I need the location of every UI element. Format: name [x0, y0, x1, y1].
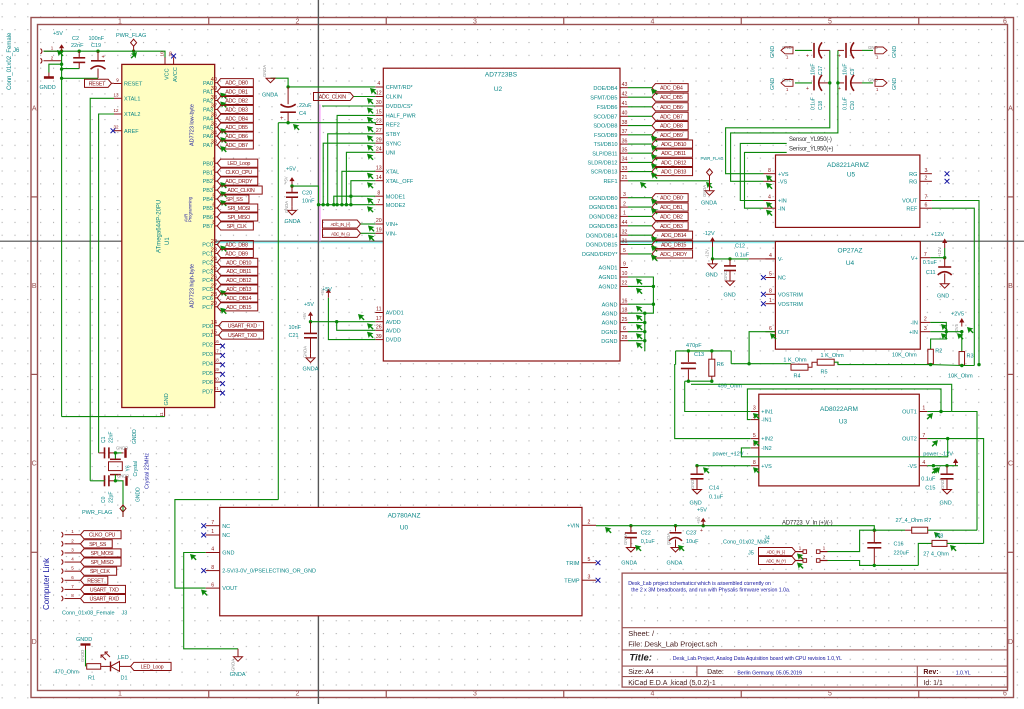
U2 pin 36 TSI/DB10: [594, 138, 628, 148]
svg-text:43: 43: [622, 82, 628, 88]
svg-text:XTAL_OFF: XTAL_OFF: [386, 179, 414, 185]
svg-text:26: 26: [376, 325, 382, 331]
svg-text:OUT1: OUT1: [902, 410, 917, 416]
svg-text:REF1: REF1: [603, 179, 617, 185]
svg-text:RESET: RESET: [89, 81, 106, 87]
svg-text:VIN+: VIN+: [386, 222, 398, 228]
svg-text:PD4: PD4: [202, 361, 213, 367]
svg-text:DVDD: DVDD: [386, 338, 402, 344]
svg-text:38: 38: [622, 120, 628, 126]
svg-text:ADC_DB8: ADC_DB8: [660, 124, 683, 130]
svg-text:25: 25: [211, 266, 217, 272]
U2 pin 17 AVDD: [375, 316, 400, 326]
U0 pin 1 NC: [201, 529, 230, 539]
svg-text:5: 5: [769, 272, 772, 278]
svg-text:+: +: [280, 116, 284, 122]
svg-text:8: 8: [377, 190, 380, 196]
svg-text:34: 34: [622, 157, 628, 163]
svg-text:27 4_Ohm: 27 4_Ohm: [923, 552, 949, 558]
svg-text:28: 28: [622, 335, 628, 341]
svg-text:ADC_DB10: ADC_DB10: [226, 260, 251, 266]
svg-text:GND: GND: [868, 78, 878, 83]
svg-text:+5V: +5V: [320, 288, 325, 296]
svg-text:1.0.YL: 1.0.YL: [956, 671, 971, 677]
svg-text:Sensor_YL950(+): Sensor_YL950(+): [789, 147, 833, 153]
svg-text:ADC_IN_(+): ADC_IN_(+): [766, 559, 786, 564]
svg-text:6: 6: [769, 326, 772, 332]
capacitor C2 22nF: [71, 36, 85, 69]
U0 pin 4 GND: [206, 547, 235, 557]
wire J4 pin1 to C16 top node: [828, 530, 875, 551]
global label ADC_DB15 at U2: [628, 240, 693, 251]
svg-text:ADC_IN_(+): ADC_IN_(+): [331, 222, 351, 227]
svg-text:20: 20: [376, 218, 382, 224]
svg-text:SCO/DB7: SCO/DB7: [593, 114, 617, 120]
wire XTAL to bus: [342, 171, 375, 204]
svg-text:USART_RXD: USART_RXD: [228, 324, 258, 330]
svg-text:+12V: +12V: [931, 232, 944, 238]
svg-text:Conn_01x02_Female: Conn_01x02_Female: [7, 32, 13, 90]
global label ADC_DB9 at U2: [628, 131, 688, 142]
erc markers at U2 config pins: [367, 117, 374, 213]
svg-text:J3: J3: [120, 611, 127, 617]
svg-text:VCC: VCC: [165, 68, 171, 80]
svg-text:Sensor_YL950(-): Sensor_YL950(-): [789, 137, 832, 143]
svg-text:23: 23: [211, 248, 217, 254]
svg-text:0.1uF: 0.1uF: [811, 97, 817, 110]
svg-text:19: 19: [214, 367, 220, 372]
svg-text:C9: C9: [850, 68, 856, 75]
U1 pin 7 / label SPI_MISO: [212, 211, 257, 221]
wire HALF_PWR to bus: [337, 115, 375, 204]
wire U1 GND to GNDD rail: [62, 416, 165, 418]
erc markers at U5 left pins: [766, 175, 773, 216]
capacitor C0 22pF: [90, 475, 115, 503]
svg-text:Computer Link: Computer Link: [42, 557, 51, 610]
svg-text:GNDA: GNDA: [231, 659, 236, 671]
U1 pin 3 / label ADC_DRDY: [212, 175, 257, 188]
svg-text:+: +: [700, 528, 703, 534]
svg-text:NC: NC: [222, 524, 230, 530]
wire XTAL_OFF to bus: [351, 181, 375, 205]
U1 pin 34 / label ADC_DB6: [211, 130, 254, 143]
U5 pin 4 +IN: [764, 195, 787, 205]
svg-text:TEMP: TEMP: [564, 578, 580, 584]
U1 pin 17 no-connect: [214, 348, 225, 358]
svg-text:OUT: OUT: [778, 330, 790, 336]
svg-text:GND: GND: [706, 273, 718, 279]
capacitor C19 100nF: [89, 36, 106, 78]
capacitor C16 220uF: [867, 530, 909, 565]
U2 pin 18 AGND: [602, 307, 628, 317]
U2 pin 41 FSI/DB6: [597, 101, 628, 111]
U1 pin 9 RESET: [114, 78, 143, 88]
svg-text:AD8022ARM: AD8022ARM: [820, 406, 858, 413]
svg-text:1: 1: [212, 158, 215, 164]
capacitor C20 10nF: [286, 184, 315, 206]
svg-text:7: 7: [924, 252, 927, 258]
capacitor C13 470pF: [681, 343, 704, 381]
svg-text:3: 3: [588, 574, 591, 580]
svg-text:VIN-: VIN-: [386, 231, 397, 237]
svg-text:U3: U3: [839, 419, 848, 426]
power +5V at +VIN rail: [696, 508, 707, 526]
U1 pin 6 / label SPI_MOSI: [212, 202, 257, 212]
U1 pin 36 / label ADC_DB4: [211, 113, 254, 123]
svg-text:STBY: STBY: [386, 132, 401, 138]
svg-text:ADC_DB9: ADC_DB9: [660, 133, 683, 139]
svg-text:AVDD: AVDD: [386, 320, 401, 326]
U3 pin 4 -VS: [908, 460, 928, 470]
svg-text:R8: R8: [936, 534, 943, 540]
global label ADC_DB4 at U2: [628, 84, 688, 95]
U4 pin 1 VOSTRIM: [761, 298, 803, 308]
U5 pin 2 RG: [909, 176, 932, 186]
svg-text:GNDD: GNDD: [132, 429, 138, 444]
svg-text:GNDA: GNDA: [262, 93, 278, 99]
svg-text:+IN: +IN: [778, 199, 787, 205]
svg-text:GND: GND: [868, 45, 878, 50]
U5 pin 1 -IN: [764, 202, 786, 212]
svg-text:ADC_DB0: ADC_DB0: [660, 196, 683, 202]
svg-text:ADC_DB3: ADC_DB3: [225, 107, 248, 113]
svg-text:CLKO_CPU: CLKO_CPU: [89, 533, 116, 539]
svg-text:19: 19: [376, 228, 382, 234]
svg-text:5: 5: [623, 248, 626, 254]
svg-text:4: 4: [768, 195, 771, 201]
svg-text:-VS: -VS: [778, 179, 788, 185]
svg-text:CFMT/RD*: CFMT/RD*: [386, 85, 414, 91]
svg-text:+5V: +5V: [284, 176, 289, 184]
svg-text:C15: C15: [925, 486, 935, 492]
svg-text:AGND1: AGND1: [599, 266, 618, 272]
svg-text:ADC_DB12: ADC_DB12: [226, 278, 251, 284]
svg-text:Crystal 22MHz: Crystal 22MHz: [145, 453, 151, 489]
svg-text:11: 11: [376, 307, 381, 313]
svg-text:HALF_PWR: HALF_PWR: [386, 114, 416, 120]
svg-text:22: 22: [622, 281, 628, 287]
svg-text:FSO/DB9: FSO/DB9: [594, 133, 618, 139]
svg-text:DGND/DB3: DGND/DB3: [589, 224, 617, 230]
svg-text:14: 14: [376, 175, 382, 181]
svg-text:0.1uF: 0.1uF: [921, 477, 936, 483]
svg-text:RESET: RESET: [87, 578, 104, 584]
svg-text:PWR_FLAG: PWR_FLAG: [116, 33, 146, 39]
global label ADC_DB10 at U2: [628, 140, 693, 151]
ground GNDD at C0: [117, 474, 142, 503]
U2 pin 20 VIN+: [375, 218, 398, 228]
capacitor C4 22uF: [280, 87, 312, 123]
svg-text:7: 7: [377, 199, 380, 205]
ground GNDA below U0: [230, 649, 246, 678]
svg-text:+12V: +12V: [937, 247, 942, 257]
svg-text:7: 7: [922, 433, 925, 439]
svg-text:DGND/DB15: DGND/DB15: [586, 243, 617, 249]
svg-text:0.1uF: 0.1uF: [641, 539, 656, 545]
wire R4R5 node to U3 +IN2: [675, 365, 751, 439]
U5 pin 3 RG: [909, 168, 932, 178]
svg-text:A: A: [32, 106, 37, 113]
resistor R6 499_Ohm: [709, 351, 742, 390]
svg-text:3: 3: [212, 175, 215, 181]
svg-text:5: 5: [753, 433, 756, 439]
svg-text:NC: NC: [778, 276, 786, 282]
svg-text:SPI_SS: SPI_SS: [226, 197, 244, 203]
svg-text:28: 28: [211, 292, 217, 298]
net label power_+12V at U3 +VS: [695, 452, 750, 468]
svg-text:5: 5: [212, 193, 215, 199]
svg-text:-12V: -12V: [705, 249, 710, 258]
U1 pin 30 AVCC no-connect: [168, 51, 179, 82]
svg-text:35: 35: [622, 147, 628, 153]
opamp U3 AD8022ARM body: [759, 394, 920, 486]
power +5V: [53, 31, 64, 51]
svg-text:Id: 1/1: Id: 1/1: [923, 680, 943, 687]
ground GND below C11: [944, 283, 946, 284]
ground GNDA at REF1: [701, 181, 717, 207]
global label ADC_DB8 at U2: [628, 122, 688, 130]
svg-text:AD7723BS: AD7723BS: [485, 72, 518, 79]
svg-text:AVDD1: AVDD1: [386, 311, 404, 317]
svg-text:10: 10: [160, 51, 165, 57]
wire GNDD to R1: [85, 650, 87, 667]
U2 pin 27 STBY: [375, 128, 400, 138]
svg-text:VOSTRIM: VOSTRIM: [778, 292, 803, 298]
J3 pin 5 / label SPI_CLK: [62, 566, 117, 576]
U1 pin 28 / label ADC_DB14: [211, 292, 258, 302]
svg-text:+5V: +5V: [286, 167, 296, 173]
svg-text:+5V: +5V: [697, 508, 707, 514]
svg-text:8: 8: [753, 460, 756, 466]
svg-text:C19: C19: [91, 43, 101, 49]
svg-text:DGND/DB14: DGND/DB14: [586, 233, 617, 239]
erc markers at U3 pins: [753, 413, 938, 474]
svg-text:1: 1: [623, 211, 626, 217]
svg-text:USART_RXD: USART_RXD: [89, 597, 119, 603]
svg-text:PD3: PD3: [202, 352, 213, 358]
J3 pin 7 / label USART_TXD: [62, 584, 126, 594]
global label ADC_DB5 at U2: [628, 93, 688, 101]
svg-text:C14: C14: [709, 486, 719, 492]
U1 pin 29 / label ADC_DB15: [211, 301, 258, 314]
global label LED_Loop: [131, 662, 172, 670]
svg-text:-IN1: -IN1: [761, 418, 771, 424]
svg-text:File: Desk_Lab Project.sch: File: Desk_Lab Project.sch: [628, 640, 717, 649]
svg-text:ADC_DB9: ADC_DB9: [225, 251, 248, 257]
svg-text:A: A: [1008, 106, 1013, 113]
U4 pin 4 V-: [765, 253, 783, 263]
svg-text:LED: LED: [118, 655, 129, 661]
wire U3 OUT1 loop to -IN1: [747, 389, 951, 420]
svg-text:ADC_DB15: ADC_DB15: [661, 243, 686, 249]
svg-text:GND: GND: [222, 551, 234, 557]
svg-text:0.1uF: 0.1uF: [843, 97, 849, 110]
U2 pin 3 DGND/DB0: [589, 192, 628, 202]
svg-text:Size: A4: Size: A4: [628, 669, 654, 676]
svg-text:5: 5: [828, 19, 832, 26]
svg-text:DGND/DRDY*: DGND/DRDY*: [582, 252, 618, 258]
svg-text:Y6: Y6: [126, 465, 132, 471]
svg-text:+IN: +IN: [909, 330, 918, 336]
svg-text:ADC_DB11: ADC_DB11: [226, 269, 251, 275]
svg-text:J4: J4: [764, 536, 770, 542]
svg-text:220uF: 220uF: [894, 551, 910, 557]
svg-text:26: 26: [211, 274, 217, 280]
svg-text:AGND: AGND: [602, 311, 618, 317]
svg-text:AGND2: AGND2: [599, 285, 618, 291]
ground GNDA below C23: [667, 545, 685, 567]
svg-text:4: 4: [769, 253, 772, 259]
svg-text:5: 5: [588, 557, 591, 563]
svg-text:2: 2: [296, 19, 300, 26]
svg-text:DGND: DGND: [601, 330, 617, 336]
U1 pin 15 / label USART_TXD: [211, 329, 264, 339]
svg-text:40: 40: [622, 111, 628, 117]
svg-text:2: 2: [588, 520, 591, 526]
svg-text:Sheet: /: Sheet: /: [628, 629, 655, 638]
U4 pin 7 V+: [911, 252, 930, 262]
U3 pin 5 +IN2: [751, 433, 773, 443]
svg-text:DGND: DGND: [601, 339, 617, 345]
U0 pin 7 NC: [201, 520, 230, 530]
svg-text:GNDA: GNDA: [303, 346, 308, 358]
svg-text:GND: GND: [937, 294, 949, 300]
wire +5V to bus: [292, 186, 319, 205]
svg-text:V-: V-: [778, 257, 783, 263]
wire UNI to bus: [346, 152, 375, 204]
ground GNDD at C1: [116, 429, 138, 458]
svg-text:5: 5: [828, 690, 832, 697]
global label ADC_IN_(-) at J4: [748, 548, 804, 560]
svg-text:SFMT/DB5: SFMT/DB5: [590, 95, 617, 101]
svg-text:+VS: +VS: [778, 172, 789, 178]
svg-text:17: 17: [376, 316, 382, 322]
svg-text:8: 8: [212, 220, 215, 226]
global label ADC_CLKIN at U2 CLKIN: [314, 92, 376, 104]
svg-text:the 2 x 3M breadboards, and ru: the 2 x 3M breadboards, and run with Phy…: [631, 588, 790, 594]
J3 pin 8 / label USART_RXD: [62, 593, 126, 603]
U2 pin 10 AGND1: [599, 271, 628, 281]
svg-text:+VIN: +VIN: [567, 523, 579, 529]
gnd flag right of C10: [862, 78, 898, 93]
U1 pin 2 / label CLKO_CPU: [212, 167, 257, 177]
U1 pin 24 / label ADC_DB10: [211, 257, 258, 267]
U2 pin 34 SLDR/DB12: [588, 157, 628, 167]
U1 pin 35 / label ADC_DB5: [211, 122, 254, 135]
gnd flag left of C17: [770, 45, 793, 60]
U1 pin 19 no-connect: [214, 367, 225, 377]
svg-text:ADC_DB7: ADC_DB7: [660, 114, 683, 120]
U2 pin 15 HALF_PWR: [375, 110, 415, 120]
svg-text:AD7723 low-byte: AD7723 low-byte: [190, 104, 196, 146]
svg-text:UNI: UNI: [386, 150, 396, 156]
global label ADC_IN(-) at VIN-: [323, 229, 376, 241]
svg-text:C17: C17: [818, 66, 824, 75]
U3 pin 2 -IN1: [751, 414, 772, 424]
svg-text:C4: C4: [299, 111, 306, 117]
U4 pin 5 NC: [761, 272, 786, 282]
global label ADC_IN_(+) at J5: [759, 556, 804, 568]
wire U0 +VIN rail: [596, 524, 876, 533]
svg-text:U5: U5: [847, 172, 856, 179]
svg-text:GNDA: GNDA: [621, 561, 637, 567]
global label ADC_DB12 at U2: [628, 158, 693, 169]
svg-text:RG: RG: [909, 172, 917, 178]
svg-text:SPI_CLK: SPI_CLK: [227, 224, 247, 230]
svg-text:+5V: +5V: [53, 31, 63, 37]
svg-text:ADC_DRDY: ADC_DRDY: [225, 179, 253, 185]
svg-text:R5: R5: [821, 369, 828, 375]
svg-text:25: 25: [622, 317, 628, 323]
wire +5V rail from J6 pin1: [44, 50, 166, 59]
global label ADC_DB6 at U2: [628, 103, 688, 111]
U2 pin 7 MODE2: [375, 199, 405, 209]
J3 pin 1 / label CLKO_CPU: [62, 529, 122, 539]
U2 pin 24 UNI: [375, 147, 395, 157]
svg-text:-IN: -IN: [778, 206, 785, 212]
svg-text:15: 15: [376, 110, 382, 116]
U2 pin 33 SCR/DB13: [591, 166, 628, 176]
ground GNDD at J6: [40, 73, 56, 92]
svg-text:16: 16: [622, 298, 628, 304]
svg-text:30: 30: [376, 100, 382, 106]
svg-text:PD5: PD5: [202, 371, 213, 377]
svg-text:6: 6: [1003, 19, 1007, 26]
svg-text:RG: RG: [909, 179, 917, 185]
wire -12V to U4 V- and C12: [711, 247, 776, 261]
svg-text:4: 4: [211, 547, 214, 553]
svg-text:27: 27: [211, 283, 217, 289]
svg-text:2: 2: [924, 317, 927, 323]
svg-text:Conn_01x02_Male: Conn_01x02_Male: [723, 540, 769, 546]
svg-text:1: 1: [118, 19, 122, 26]
svg-text:23: 23: [376, 119, 382, 125]
capacitor C17 10uF: [806, 42, 830, 75]
title block: [622, 573, 1007, 687]
svg-text:C: C: [1008, 461, 1013, 468]
U4 pin 2 -IN: [910, 317, 930, 327]
svg-text:34: 34: [211, 130, 217, 136]
svg-text:470_Ohm: 470_Ohm: [55, 670, 80, 676]
svg-text:+: +: [806, 86, 809, 92]
wire +5V to AVDD pins: [309, 314, 376, 338]
svg-text:ADC_DB0: ADC_DB0: [225, 81, 248, 87]
svg-text:ADC_DB3: ADC_DB3: [660, 224, 683, 230]
capacitor C15 0.1uF: [921, 466, 953, 492]
capacitor C23 10uF: [666, 526, 703, 547]
U1 pin 37 / label ADC_DB3: [211, 104, 254, 114]
svg-text:ADC_IN_(-): ADC_IN_(-): [767, 550, 786, 555]
svg-text:USART_TXD: USART_TXD: [228, 333, 257, 339]
svg-text:GND: GND: [940, 480, 945, 489]
wire +VS supply column to U5: [726, 50, 832, 173]
svg-text:ADC_DB7: ADC_DB7: [225, 143, 248, 149]
resistor R2 10K_Ohm: [892, 348, 942, 364]
svg-text:TRIM: TRIM: [566, 561, 580, 567]
U2 pin 40 SCO/DB7: [593, 111, 628, 121]
svg-text:+VS: +VS: [761, 464, 772, 470]
U1 pin 14 / label USART_RXD: [211, 320, 264, 330]
svg-text:ADC_DB12: ADC_DB12: [661, 160, 686, 166]
svg-text:CLKIN: CLKIN: [386, 95, 402, 101]
U2 pin 39 DVDD: [375, 334, 401, 344]
global label ADC_DRDY at U2: [628, 250, 693, 261]
svg-text:ADC_DB13: ADC_DB13: [226, 287, 251, 293]
led D1: [101, 652, 131, 682]
svg-text:C0: C0: [101, 496, 107, 503]
U2 pin 1 DGND/DB2: [589, 211, 628, 221]
wire U2 pin4 CFMT to GNDA: [286, 85, 376, 94]
